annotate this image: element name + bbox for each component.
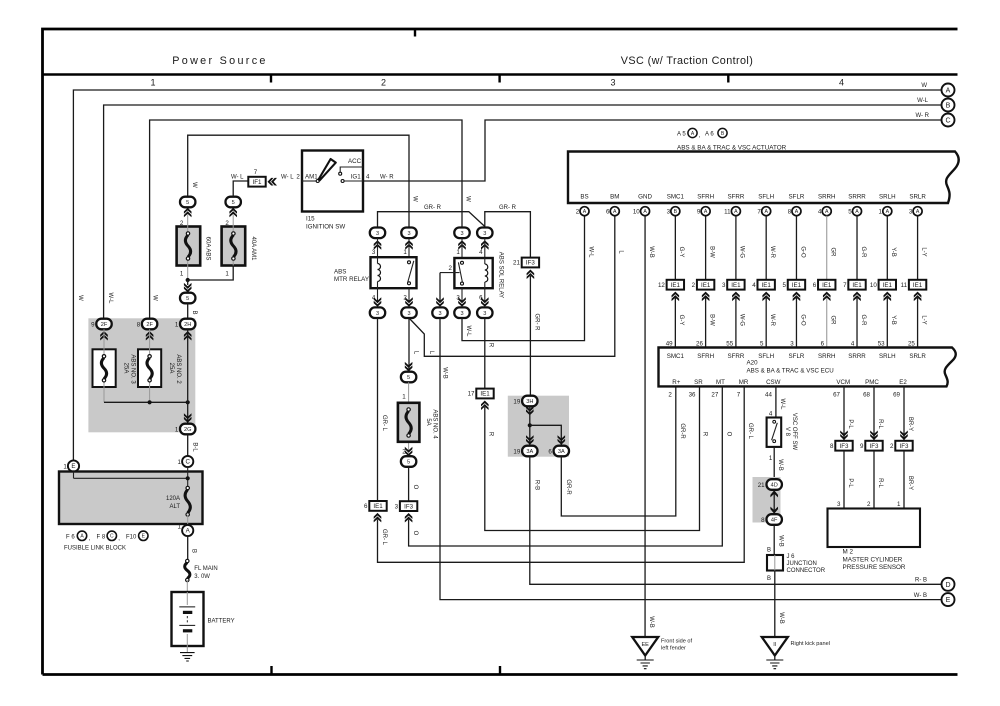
- wire stubs SOL top pins: [462, 238, 485, 258]
- sensor pin 2 label (PMC): [867, 501, 871, 508]
- pin 3 label MTR: [372, 249, 376, 256]
- svg-text:GND: GND: [638, 194, 652, 201]
- svg-text:W- R: W- R: [915, 113, 929, 119]
- svg-text:1: 1: [180, 271, 184, 278]
- ECU bottom pin number 36: [689, 392, 696, 399]
- svg-text:W-G: W-G: [739, 246, 745, 259]
- svg-text:A: A: [855, 209, 859, 215]
- svg-text:II: II: [773, 642, 777, 648]
- svg-text:4D: 4D: [771, 483, 778, 489]
- fuse element 25A NO.2: [147, 355, 152, 382]
- label IGNITION SW: [306, 224, 345, 231]
- svg-text:EE: EE: [641, 642, 649, 648]
- label P-L upper (VCM): [847, 419, 853, 429]
- junction dot ALT: [186, 476, 190, 480]
- page connector E (right): [942, 593, 955, 606]
- wire SFRR IE1 to ECU: [735, 298, 737, 348]
- wire W-B SOL pin2 to connector E: [440, 318, 941, 600]
- svg-text:W- B: W- B: [914, 593, 927, 599]
- svg-text:R-B: R-B: [533, 480, 539, 490]
- connector oval 3 (SOL pin 6 bottom): [477, 307, 492, 318]
- page connector A: [942, 84, 955, 97]
- svg-text:1: 1: [403, 249, 407, 256]
- svg-text:W- L: W- L: [231, 174, 244, 180]
- wire W to connector A: [73, 90, 941, 461]
- connector oval 2H (1): [180, 319, 195, 330]
- label W-L (CSW): [779, 399, 785, 411]
- label O above IF3(3): [412, 485, 418, 490]
- svg-text:3: 3: [667, 209, 671, 216]
- svg-text:GR- R: GR- R: [533, 314, 539, 332]
- connector oval 3 (SOL pin 4): [477, 228, 492, 239]
- svg-text:O: O: [412, 485, 418, 490]
- arrow into oval 5 (40A): [229, 208, 237, 218]
- label 25A ABS NO.3: [122, 354, 135, 384]
- svg-text:3: 3: [483, 311, 486, 317]
- label W-G upper: [739, 246, 745, 259]
- svg-text:B: B: [191, 310, 197, 314]
- svg-text:3: 3: [376, 311, 379, 317]
- label B (oval5 to 2H): [191, 310, 197, 314]
- svg-text:SRRH: SRRH: [818, 194, 836, 201]
- svg-text:2: 2: [449, 265, 453, 272]
- title Power Source: [172, 55, 267, 67]
- svg-text:1: 1: [769, 455, 773, 462]
- svg-text:E: E: [946, 597, 951, 604]
- connector IF3 (3): [395, 501, 418, 511]
- fuse 40A AM1 box: [222, 227, 246, 266]
- wire IF3 to sensor (PMC): [873, 451, 875, 509]
- svg-text:3: 3: [610, 78, 615, 88]
- ECU bottom pin name CSW: [766, 379, 781, 386]
- svg-text:9: 9: [91, 322, 95, 329]
- arrow into 2H(1): [184, 331, 192, 341]
- ECU bottom pin number 27: [711, 392, 718, 399]
- actuator pin name SRRH: [818, 194, 836, 201]
- fuse wire stubs 60A: [187, 215, 189, 281]
- pin 1 label 2H: [175, 322, 179, 329]
- svg-text:1: 1: [63, 464, 67, 471]
- actuator pin name SFLH: [758, 194, 774, 201]
- ECU pin number 53: [878, 340, 885, 347]
- label G-O lower: [799, 314, 805, 326]
- label 5A ABS NO.4: [425, 409, 438, 439]
- svg-text:3: 3: [407, 231, 410, 237]
- gray block 3H-3A: [508, 396, 569, 457]
- svg-text:1: 1: [178, 524, 182, 531]
- label R-L upper (PMC): [877, 419, 883, 429]
- pin 1 label VSC OFF SW: [769, 455, 773, 462]
- svg-text:BM: BM: [610, 194, 619, 201]
- actuator pin name SRRR: [848, 194, 866, 201]
- svg-text:W: W: [191, 182, 197, 188]
- label W-R (ignition output): [380, 174, 394, 180]
- svg-text:SFLR: SFLR: [789, 194, 805, 201]
- section number 2: [381, 78, 386, 88]
- label W (vertical, left riser): [77, 295, 83, 301]
- junction dot fuse NO.2: [148, 400, 152, 404]
- wire MTR pin2 oval to 5A fuse: [408, 318, 410, 371]
- label V8 VSC OFF SW: [784, 413, 797, 451]
- svg-text:3A: 3A: [526, 449, 533, 455]
- svg-text:IE1: IE1: [731, 282, 741, 289]
- fuse element 25A NO.3: [101, 355, 106, 382]
- svg-text:5: 5: [760, 340, 764, 347]
- svg-text:36: 36: [689, 392, 696, 399]
- svg-text:9: 9: [860, 443, 864, 450]
- page connector D (right): [942, 578, 955, 591]
- connector oval 2F (9): [96, 319, 111, 330]
- wire R SOL pin6 to IE1(17): [484, 318, 486, 389]
- wire 40A fuse output to junction: [188, 266, 234, 281]
- ECU bottom pin number 69: [893, 392, 900, 399]
- pin 19 label 3A: [513, 449, 520, 456]
- fuse element 5A: [406, 408, 411, 437]
- svg-text:I15: I15: [306, 216, 315, 223]
- label 40A AM1: [250, 236, 256, 261]
- wire IF3 to sensor (VCM): [843, 451, 845, 509]
- svg-text:R+: R+: [672, 379, 680, 386]
- svg-text:W-B: W-B: [648, 246, 654, 258]
- arrow into MTR oval 2: [405, 297, 413, 307]
- svg-text:A: A: [704, 209, 708, 215]
- svg-text:SRLH: SRLH: [879, 353, 896, 360]
- svg-text:8: 8: [788, 209, 792, 216]
- wire fuse outputs bus: [104, 401, 188, 403]
- fuse 25A ABS NO.3 box: [93, 349, 116, 387]
- arrow into 2G: [184, 413, 192, 423]
- sensor pin 1 label (E2): [897, 501, 901, 508]
- pin 2 label SOL: [449, 265, 453, 272]
- svg-text:MTR RELAY: MTR RELAY: [334, 276, 369, 283]
- svg-text:R: R: [702, 432, 708, 437]
- svg-text:3: 3: [837, 501, 841, 508]
- label Front side of left fender: [661, 639, 693, 652]
- svg-text:G-Y: G-Y: [678, 315, 684, 326]
- svg-text:IF3: IF3: [900, 443, 909, 450]
- connector IE1 (11) col SRLR: [901, 280, 927, 290]
- svg-text:B: B: [767, 548, 771, 554]
- wire SMC1 actuator to IE1: [674, 216, 676, 280]
- svg-text:Y-B: Y-B: [890, 315, 896, 324]
- pin 1 label 2G: [175, 427, 179, 434]
- pin 6 label SOL: [479, 295, 483, 302]
- svg-text:R- B: R- B: [915, 578, 927, 584]
- pin 4 label MTR: [372, 295, 376, 302]
- svg-text:SFLH: SFLH: [758, 353, 774, 360]
- svg-text:L-Y: L-Y: [920, 247, 926, 256]
- wire SFLH actuator to IE1: [765, 216, 767, 280]
- wire SFRH IE1 to ECU: [705, 298, 707, 348]
- arrow into IE1 col SRLR: [914, 292, 922, 302]
- pin 4 label VSC OFF SW: [769, 411, 773, 418]
- arrow into 3A(19): [526, 435, 534, 445]
- svg-text:3: 3: [722, 282, 726, 289]
- wire 2G to ALT C: [187, 434, 189, 456]
- wire junction to oval 5: [187, 280, 189, 285]
- pin 1 label SOL: [456, 249, 460, 256]
- wire junction to 3A(6): [530, 425, 562, 445]
- svg-text:ACC: ACC: [348, 158, 362, 165]
- svg-text:SRLH: SRLH: [879, 194, 896, 201]
- pin 6 label 3A: [548, 449, 552, 456]
- wire R-B 3A(19) to connector D: [530, 456, 941, 584]
- svg-text:3: 3: [460, 231, 463, 237]
- svg-text:B: B: [191, 549, 197, 553]
- label B-W upper: [708, 246, 714, 258]
- connector oval 4D (21): [767, 479, 782, 490]
- svg-text:IE1: IE1: [822, 282, 832, 289]
- gray block 4D-4F: [753, 477, 781, 523]
- svg-text:25A: 25A: [122, 363, 128, 374]
- svg-text:SRRH: SRRH: [818, 353, 836, 360]
- wire PMC to IF3: [873, 386, 875, 441]
- svg-text:A: A: [886, 209, 890, 215]
- wire SMC1 IE1 to ECU: [674, 298, 676, 348]
- svg-text:G-R: G-R: [860, 247, 866, 259]
- wire 4D to 4F: [770, 490, 778, 514]
- svg-text:GR- R: GR- R: [499, 205, 517, 211]
- svg-text:W: W: [921, 83, 927, 89]
- connector IE1 (17): [468, 389, 494, 399]
- svg-text:IF3: IF3: [870, 443, 879, 450]
- actuator pin 7 circle A (SFLH): [757, 207, 770, 216]
- arrow into IE1(6): [374, 513, 382, 523]
- ALT fuse stub to A: [187, 515, 189, 526]
- svg-text:IE1: IE1: [701, 282, 711, 289]
- svg-text:W-G: W-G: [739, 314, 745, 327]
- svg-text:27: 27: [711, 392, 718, 399]
- svg-text:6: 6: [813, 282, 817, 289]
- svg-text:7: 7: [254, 169, 258, 176]
- connector IE1 (10) col SRLH: [870, 280, 896, 290]
- arrow into oval 5 (60A): [184, 208, 192, 218]
- title VSC (w/ Traction Control): [621, 55, 753, 67]
- label GR-L below IE1(6): [381, 529, 387, 546]
- connector oval 3 (MTR pin 1): [401, 228, 416, 239]
- svg-text:CONNECTOR: CONNECTOR: [787, 568, 826, 574]
- arrow into IE1(17): [481, 401, 489, 411]
- svg-text:25: 25: [908, 340, 915, 347]
- junction dot below 60A fuse: [186, 278, 190, 282]
- label 60A ABS: [204, 237, 210, 261]
- svg-text:IF3: IF3: [404, 503, 413, 510]
- svg-text:JUNCTION: JUNCTION: [787, 561, 817, 567]
- actuator pin 5 circle A (SRRR): [848, 207, 861, 216]
- label BR-Y lower (E2): [907, 476, 913, 490]
- ECU bottom pin number 7: [737, 392, 741, 399]
- connector oval 3A (6): [554, 446, 569, 457]
- svg-text:PMC: PMC: [865, 379, 879, 386]
- label A5 A6 connectors: [677, 128, 727, 139]
- svg-text:SMC1: SMC1: [667, 353, 685, 360]
- label R-B (3A19): [533, 480, 539, 490]
- label W-L (BS): [587, 247, 593, 259]
- label J6 JUNCTION CONNECTOR: [787, 554, 826, 574]
- AM1 contact stub: [302, 180, 316, 182]
- svg-text:W- L: W- L: [281, 174, 294, 180]
- connector IE1 (6) col SRRH: [813, 280, 836, 290]
- svg-text:W-L: W-L: [587, 247, 593, 259]
- actuator pin name BM: [610, 194, 619, 201]
- header separator line: [43, 73, 958, 75]
- connector oval 5 (60A ABS top): [180, 197, 195, 208]
- pin 1 label ALT E: [63, 464, 67, 471]
- master cylinder pressure sensor box: [828, 509, 921, 548]
- connector oval 5 (5A bottom): [401, 456, 416, 467]
- wire SFLR actuator to IE1: [795, 216, 797, 280]
- svg-text:3H: 3H: [526, 399, 533, 405]
- svg-text:GR- R: GR- R: [424, 205, 442, 211]
- connector IE1 (12) col SMC1: [658, 280, 684, 290]
- label ABS & BA & TRAC & VSC ECU: [747, 367, 834, 374]
- ECU bottom pin name E2: [899, 379, 907, 386]
- wire stubs MTR bottom pins: [378, 288, 410, 302]
- label B-W lower: [708, 314, 714, 326]
- ECU bottom pin name R+: [672, 379, 680, 386]
- ECU pin name SMC1: [667, 353, 685, 360]
- svg-text:Right kick panel: Right kick panel: [791, 641, 831, 647]
- svg-text:5: 5: [848, 209, 852, 216]
- svg-text:6: 6: [364, 503, 368, 510]
- connector oval 3 (MTR pin 4 bottom): [370, 307, 385, 318]
- svg-text:J 6: J 6: [787, 554, 796, 560]
- svg-text:ABS SOL RELAY: ABS SOL RELAY: [497, 252, 503, 298]
- svg-text:A: A: [613, 209, 617, 215]
- svg-text:Front side of: Front side of: [661, 639, 693, 645]
- arrow into IF3(3): [405, 513, 413, 523]
- ECU pin number 4: [851, 340, 855, 347]
- ACC contact wire: [340, 167, 363, 172]
- wire GR-R MTR relay pin3 to SOL relay pin4: [378, 212, 485, 228]
- svg-text:3: 3: [395, 503, 399, 510]
- battery box: [172, 592, 204, 646]
- connector IF1: [248, 177, 265, 187]
- svg-text:2: 2: [381, 78, 386, 88]
- svg-text:3: 3: [376, 231, 379, 237]
- pin 1 label ALT C: [178, 459, 182, 466]
- wire IF3(3) to ECU MT: [409, 386, 723, 546]
- label W (MTR relay riser): [411, 196, 417, 202]
- label W (60A fuse riser): [191, 182, 197, 188]
- label GR-L (MR riser): [747, 423, 753, 440]
- actuator pin name BS: [580, 194, 588, 201]
- label W-L (SOL pin3): [465, 326, 471, 338]
- label 25A ABS NO.2: [168, 354, 181, 384]
- actuator pin 10 circle A (GND): [633, 207, 650, 216]
- arrow into SOL oval 2: [436, 297, 444, 307]
- label B (to FL MAIN): [191, 549, 197, 553]
- svg-text:IE1: IE1: [792, 282, 802, 289]
- fuse stubs 25A NO.2: [149, 329, 151, 402]
- label GR-R (IF3 to 3H): [533, 314, 539, 332]
- svg-text:2: 2: [890, 443, 894, 450]
- svg-text:10: 10: [870, 282, 877, 289]
- svg-text:2: 2: [668, 392, 672, 399]
- label W (2F riser): [152, 295, 158, 301]
- svg-text:GR- L: GR- L: [747, 423, 753, 440]
- svg-text:Y-B: Y-B: [890, 247, 896, 256]
- svg-text:SFRH: SFRH: [697, 194, 714, 201]
- actuator pin 4 circle A (SRRH): [818, 207, 831, 216]
- ECU pin name SRLH: [879, 353, 896, 360]
- label B above J6: [767, 548, 771, 554]
- arrow into IF3 (PMC): [870, 431, 878, 441]
- svg-text:left fender: left fender: [661, 646, 686, 652]
- connector oval 3H: [522, 396, 537, 407]
- label FUSIBLE LINK BLOCK: [64, 546, 126, 552]
- svg-text:F10: F10: [126, 534, 137, 540]
- svg-text:1: 1: [402, 394, 406, 401]
- svg-text:SFRH: SFRH: [697, 353, 714, 360]
- pin 1 label ALT A: [178, 524, 182, 531]
- svg-text:A 6: A 6: [705, 132, 714, 138]
- pin 4 label SOL: [479, 249, 483, 256]
- svg-text:V 8: V 8: [784, 427, 790, 437]
- svg-text:W-L: W-L: [917, 98, 929, 104]
- pin circle C (ALT): [182, 456, 193, 467]
- svg-text:W-B: W-B: [778, 612, 784, 624]
- label W (SOL relay riser): [465, 196, 471, 202]
- svg-text:ABS NO. 4: ABS NO. 4: [431, 409, 437, 439]
- sensor pin 3 label (VCM): [837, 501, 841, 508]
- svg-text:W-R: W-R: [769, 314, 775, 327]
- svg-text:SRRR: SRRR: [848, 194, 866, 201]
- svg-text:P-L: P-L: [847, 419, 853, 429]
- arrow into MTR oval 4: [374, 297, 382, 307]
- svg-text:W-B: W-B: [777, 459, 783, 471]
- svg-text:53: 53: [878, 340, 885, 347]
- arrow into IE1 col SRRH: [823, 292, 831, 302]
- svg-text:4: 4: [366, 173, 370, 180]
- label G-Y upper: [678, 247, 684, 258]
- svg-text:VSC OFF SW: VSC OFF SW: [791, 413, 797, 451]
- label W-R lower: [769, 314, 775, 327]
- svg-text:5A: 5A: [425, 418, 431, 425]
- wire E2 to IF3: [903, 386, 905, 441]
- svg-text:E: E: [71, 463, 75, 470]
- svg-text:VSC (w/ Traction Control): VSC (w/ Traction Control): [621, 55, 753, 67]
- svg-text:26: 26: [696, 340, 703, 347]
- svg-text:3: 3: [909, 209, 913, 216]
- svg-text:2: 2: [692, 282, 696, 289]
- svg-text:4F: 4F: [771, 518, 778, 524]
- label W-B (GND upper): [648, 246, 654, 258]
- label B below J6: [767, 576, 771, 582]
- svg-text:SFLH: SFLH: [758, 194, 774, 201]
- arrow into IE1 col SFRH: [702, 292, 710, 302]
- svg-text:IF3: IF3: [840, 443, 849, 450]
- label Right kick panel: [791, 641, 831, 647]
- label R-B at connector D: [915, 578, 927, 584]
- svg-text:A: A: [795, 209, 799, 215]
- fuse element 40A AM1: [231, 232, 236, 260]
- svg-text:W-L: W-L: [465, 326, 471, 338]
- ground II: [762, 637, 788, 669]
- svg-text:G-O: G-O: [799, 246, 805, 258]
- page connector B: [942, 99, 955, 112]
- arrow into 3A(6): [558, 435, 566, 445]
- svg-text:44: 44: [765, 392, 772, 399]
- svg-text:FL MAIN: FL MAIN: [194, 566, 217, 572]
- label G-O upper: [799, 246, 805, 258]
- svg-text:7: 7: [843, 282, 847, 289]
- svg-text:17: 17: [468, 391, 475, 398]
- ignition lever: [319, 159, 336, 180]
- actuator pin 6 circle A (BM): [606, 207, 619, 216]
- label W-R upper: [769, 246, 775, 259]
- label W-L at connector B: [917, 98, 929, 104]
